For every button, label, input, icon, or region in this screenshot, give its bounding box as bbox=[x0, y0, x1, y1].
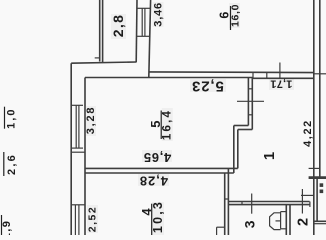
svg-text:5,23: 5,23 bbox=[191, 78, 224, 95]
svg-text:16,4: 16,4 bbox=[162, 109, 174, 140]
svg-text:3,46: 3,46 bbox=[152, 2, 164, 27]
svg-text:3: 3 bbox=[242, 220, 258, 228]
svg-text:2,52: 2,52 bbox=[87, 206, 99, 232]
svg-text:2,6: 2,6 bbox=[6, 153, 18, 175]
svg-text:10,3: 10,3 bbox=[151, 200, 165, 233]
svg-text:1: 1 bbox=[261, 152, 278, 160]
svg-text:1,71: 1,71 bbox=[270, 78, 292, 90]
svg-text:4,65: 4,65 bbox=[143, 150, 171, 165]
svg-text:16,0: 16,0 bbox=[230, 4, 242, 27]
svg-text:4,28: 4,28 bbox=[139, 174, 168, 189]
svg-text:2: 2 bbox=[295, 218, 311, 226]
svg-text:1,9: 1,9 bbox=[1, 220, 13, 235]
svg-text:1,0: 1,0 bbox=[5, 108, 17, 129]
svg-text:4,22: 4,22 bbox=[302, 119, 314, 147]
svg-text:2,8: 2,8 bbox=[110, 14, 126, 37]
svg-text:3,28: 3,28 bbox=[85, 106, 97, 135]
